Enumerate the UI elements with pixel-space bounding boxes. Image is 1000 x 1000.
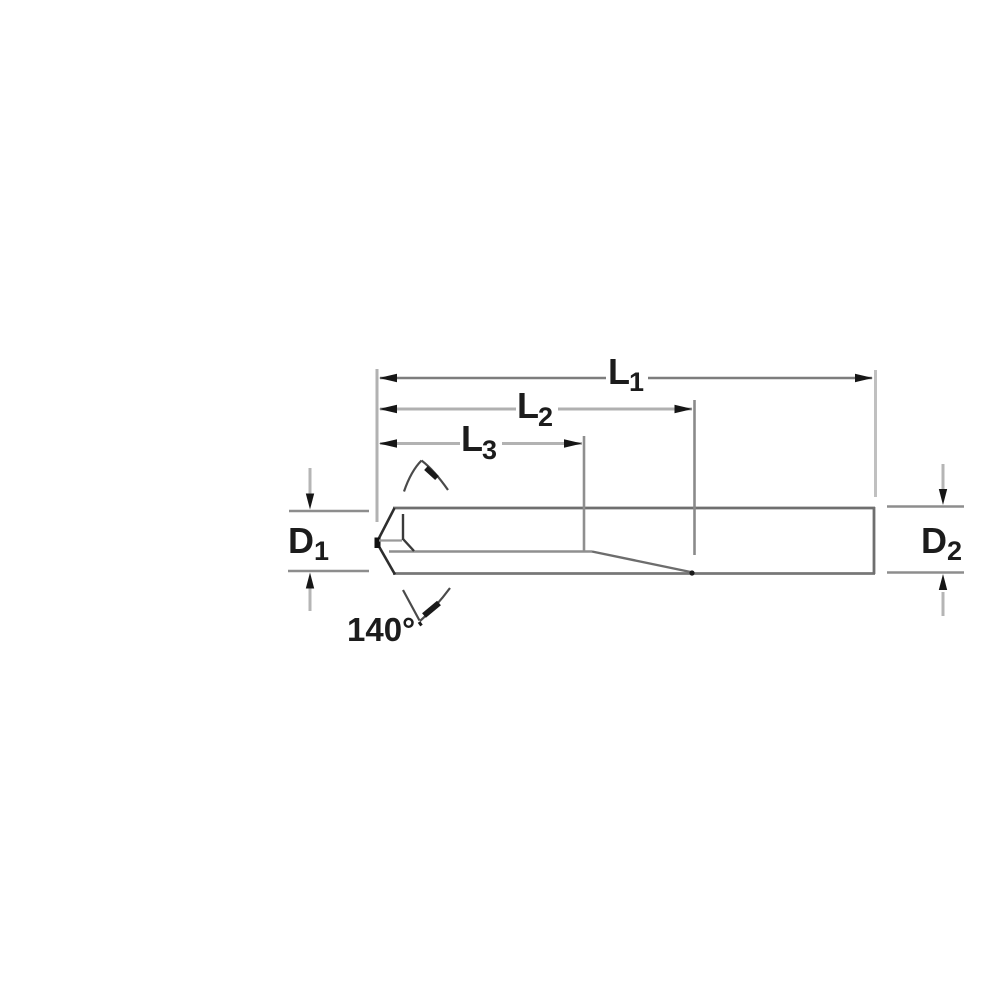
D2 dimension line below with arrow [939, 574, 947, 616]
svg-text:L: L [517, 385, 539, 426]
extension line left (tip, for L1 L2 L3) [376, 369, 379, 522]
svg-text:1: 1 [629, 367, 644, 397]
angle arc lower [403, 588, 450, 626]
svg-text:1: 1 [314, 536, 329, 566]
svg-text:2: 2 [947, 536, 962, 566]
arrowhead L2 left [379, 405, 397, 413]
extension line for L2 right end [693, 400, 696, 555]
label L3 [461, 418, 497, 465]
tool point top slope edge [378, 508, 395, 541]
D2 dimension line above with arrow [939, 464, 947, 505]
D1 dimension line above with arrow [306, 468, 314, 510]
arrowhead L1 left [379, 374, 397, 382]
svg-text:3: 3 [482, 435, 497, 465]
tool body right end edge [873, 507, 876, 574]
tool body bottom edge [393, 572, 875, 575]
dimension line L3 [380, 442, 582, 445]
dimension line L2 [380, 408, 692, 411]
tool point apex [375, 538, 381, 549]
label L1 [608, 351, 644, 397]
flute runout junction dot [689, 570, 694, 575]
svg-text:D: D [921, 520, 947, 561]
tool point heel diagonal to flute [403, 539, 414, 551]
D2 extension line top [887, 505, 964, 508]
tool flute margin line [389, 550, 592, 553]
tool point bottom slope edge [377, 543, 395, 575]
label L2 [517, 385, 553, 432]
extension line right (shank end, for L1) [874, 370, 877, 497]
D2 extension line bottom [887, 571, 964, 574]
D1 dimension line below with arrow [306, 573, 314, 612]
tool point heel vertical line [402, 514, 404, 540]
arrowhead L3 left [379, 439, 397, 447]
tool body top edge [393, 507, 875, 510]
label D2 [921, 520, 962, 566]
svg-text:2: 2 [538, 402, 553, 432]
svg-text:140°: 140° [347, 611, 415, 648]
D1 extension line top [289, 510, 369, 513]
arrowhead L1 right [855, 374, 873, 382]
tool point chisel line [379, 539, 402, 541]
D1 extension line bottom [288, 570, 369, 573]
arrowhead L2 right [675, 405, 693, 413]
svg-text:L: L [461, 418, 483, 459]
tool flute runout taper line [592, 552, 693, 573]
svg-text:D: D [288, 520, 314, 561]
svg-text:L: L [608, 351, 630, 392]
label D1 [288, 520, 329, 566]
dimension line L1 [380, 377, 872, 380]
label 140 degrees [347, 611, 415, 648]
angle arc upper [404, 461, 448, 492]
arrowhead L3 right [564, 439, 582, 447]
extension line for L3 right end [583, 436, 586, 552]
